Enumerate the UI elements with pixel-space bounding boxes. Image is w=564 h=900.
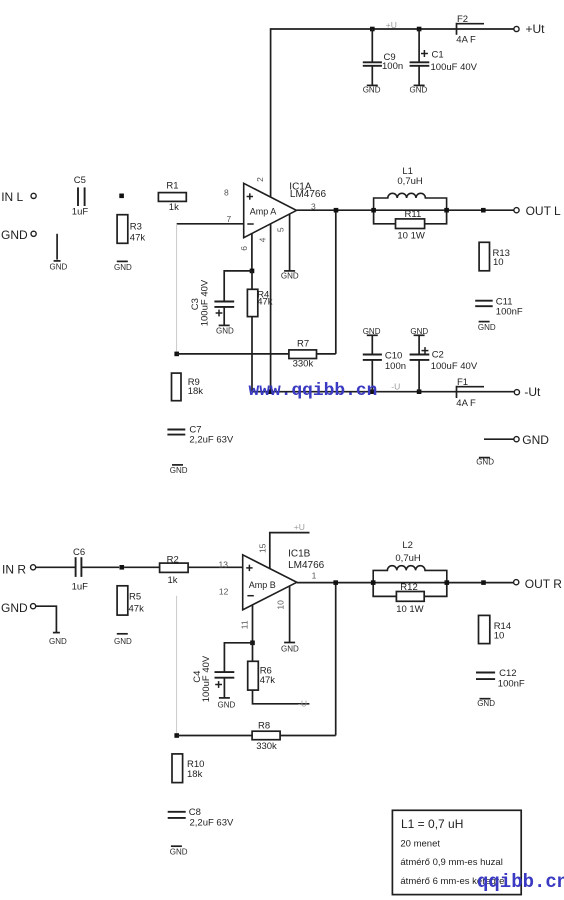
ground under C4 xyxy=(218,698,236,709)
resistor R12 xyxy=(373,582,447,615)
wire mute to C3 xyxy=(224,271,252,302)
junction mute A xyxy=(250,269,255,274)
ground under C7 xyxy=(170,465,188,475)
wire pin 15 xyxy=(270,533,310,569)
svg-text:4A F: 4A F xyxy=(456,398,476,409)
junction rail C2 xyxy=(417,389,422,394)
wire inverting net faint B xyxy=(176,596,178,736)
svg-text:20 menet: 20 menet xyxy=(400,839,440,850)
net -U label B xyxy=(298,699,307,709)
wire IN R to C6 xyxy=(36,566,76,568)
svg-text:R7: R7 xyxy=(297,338,309,349)
svg-text:OUT L: OUT L xyxy=(526,204,561,218)
junction L1 left xyxy=(371,208,376,213)
terminal GND input B xyxy=(1,601,36,615)
junction mute B xyxy=(250,641,255,646)
svg-text:47k: 47k xyxy=(260,675,276,686)
ground under C9 xyxy=(363,85,381,94)
svg-text:LM4766: LM4766 xyxy=(290,189,327,200)
net -U label xyxy=(391,381,400,391)
ground under R5 xyxy=(114,634,132,646)
svg-text:GND: GND xyxy=(410,86,428,95)
resistor R8 xyxy=(252,721,280,753)
svg-text:12: 12 xyxy=(219,587,229,597)
svg-text:4A F: 4A F xyxy=(456,34,476,45)
resistor R3 xyxy=(117,215,145,244)
svg-text:18k: 18k xyxy=(187,769,203,780)
resistor R4 xyxy=(247,271,272,392)
svg-text:OUT R: OUT R xyxy=(525,577,562,591)
ground under C12 xyxy=(477,699,495,708)
svg-text:1k: 1k xyxy=(168,575,178,586)
op-amp IC1B xyxy=(219,543,325,629)
capacitor C1 xyxy=(410,29,478,85)
wire pin 7 xyxy=(177,223,244,225)
inductor L2 xyxy=(373,540,447,583)
svg-text:1: 1 xyxy=(312,570,317,580)
wire GND output terminal xyxy=(484,438,514,440)
svg-text:-U: -U xyxy=(391,381,400,391)
svg-text:GND: GND xyxy=(1,228,28,242)
svg-text:Amp A: Amp A xyxy=(250,206,277,216)
junction feedback B xyxy=(174,733,179,738)
capacitor C4 xyxy=(192,655,234,702)
svg-text:LM4766: LM4766 xyxy=(288,560,325,571)
resistor R6 xyxy=(248,643,310,704)
wire -U rail xyxy=(252,391,514,393)
svg-text:www.qqibb.cn: www.qqibb.cn xyxy=(249,381,378,401)
wire R2 to pin 13 xyxy=(188,566,243,568)
ground symbol near terminal xyxy=(476,458,494,467)
svg-text:11: 11 xyxy=(239,620,249,629)
svg-text:R2: R2 xyxy=(167,554,179,565)
svg-text:4: 4 xyxy=(257,237,267,242)
svg-text:Amp B: Amp B xyxy=(249,580,276,590)
svg-text:GND: GND xyxy=(478,323,496,332)
junction output/feedback A xyxy=(334,208,339,213)
svg-text:GND: GND xyxy=(114,263,132,272)
svg-text:18k: 18k xyxy=(188,386,204,397)
svg-text:C10: C10 xyxy=(385,350,402,361)
resistor R11 xyxy=(374,209,447,241)
svg-text:C12: C12 xyxy=(499,668,516,679)
svg-text:100n: 100n xyxy=(382,61,403,72)
svg-text:GND: GND xyxy=(363,86,381,95)
svg-text:GND: GND xyxy=(281,645,299,654)
svg-text:L1 = 0,7 uH: L1 = 0,7 uH xyxy=(401,817,463,831)
svg-text:R3: R3 xyxy=(130,221,142,232)
capacitor C3 xyxy=(190,279,234,326)
wire GND input A xyxy=(56,234,58,260)
resistor R14 xyxy=(479,615,512,643)
svg-text:1uF: 1uF xyxy=(72,206,89,217)
fuse F2 xyxy=(456,14,484,46)
wire output A xyxy=(297,209,514,211)
wire C6 to node xyxy=(81,566,119,568)
resistor R10 xyxy=(172,754,204,783)
note box xyxy=(392,810,521,894)
svg-text:47k: 47k xyxy=(257,297,273,308)
junction node +U/C1 xyxy=(417,27,422,32)
junction L1 right xyxy=(444,208,449,213)
junction rail C10 xyxy=(370,389,375,394)
ground under C3 xyxy=(216,325,234,335)
capacitor C8 xyxy=(168,807,234,829)
svg-text:R1: R1 xyxy=(166,181,178,192)
wire feedback row B xyxy=(177,583,336,736)
svg-text:GND: GND xyxy=(170,848,188,857)
capacitor C5 xyxy=(72,175,89,217)
svg-text:qqibb.cn: qqibb.cn xyxy=(477,871,564,893)
svg-text:GND: GND xyxy=(522,433,549,447)
wire pin 11 xyxy=(252,605,254,643)
inductor L1 xyxy=(374,166,447,210)
ground input A xyxy=(50,261,68,272)
svg-text:2,2uF 63V: 2,2uF 63V xyxy=(190,818,234,829)
wire inverting net faint xyxy=(176,224,178,354)
capacitor C12 xyxy=(476,668,525,689)
capacitor C9 xyxy=(363,29,403,85)
svg-text:C1: C1 xyxy=(432,50,444,61)
wire node to R2 xyxy=(124,566,160,568)
wire pin 5 xyxy=(289,214,291,271)
svg-text:47k: 47k xyxy=(129,603,145,614)
svg-text:2,2uF 63V: 2,2uF 63V xyxy=(189,435,233,446)
resistor R1 xyxy=(158,181,186,214)
svg-text:GND: GND xyxy=(477,699,495,708)
junction L2 left xyxy=(371,580,376,585)
wire output B xyxy=(297,582,514,584)
capacitor C10 xyxy=(363,327,406,392)
terminal +Ut xyxy=(514,22,545,36)
terminal IN R xyxy=(2,562,36,576)
resistor R7 xyxy=(289,338,317,369)
capacitor C11 xyxy=(475,297,523,318)
svg-text:100nF: 100nF xyxy=(496,307,523,318)
svg-text:C5: C5 xyxy=(74,175,86,186)
svg-text:L2: L2 xyxy=(402,540,413,551)
svg-text:C6: C6 xyxy=(73,547,85,558)
svg-text:F1: F1 xyxy=(457,377,468,388)
node dot input B xyxy=(120,565,125,570)
watermark center xyxy=(249,381,378,401)
ground pin 5 xyxy=(281,271,299,281)
svg-text:F2: F2 xyxy=(457,14,468,25)
svg-text:330k: 330k xyxy=(256,741,277,752)
svg-text:GND: GND xyxy=(114,637,132,646)
ground under C1 xyxy=(410,85,428,94)
wire mute to C4 xyxy=(224,643,252,672)
capacitor C2 xyxy=(410,327,478,392)
svg-text:GND: GND xyxy=(476,458,494,467)
terminal OUT L xyxy=(514,204,561,218)
svg-text:GND: GND xyxy=(281,271,299,280)
terminal GND input A xyxy=(1,228,36,242)
wire pin 4 xyxy=(270,224,272,392)
svg-text:GND: GND xyxy=(49,637,67,646)
ground under C11 xyxy=(478,322,496,333)
svg-text:100uF 40V: 100uF 40V xyxy=(201,655,212,702)
svg-text:IC1B: IC1B xyxy=(288,548,311,559)
svg-text:2: 2 xyxy=(255,177,265,182)
svg-text:GND: GND xyxy=(50,262,68,271)
junction rail pin4 xyxy=(268,389,273,394)
svg-text:330k: 330k xyxy=(293,359,314,370)
svg-text:100nF: 100nF xyxy=(498,679,525,690)
ground under C8 xyxy=(170,846,188,856)
terminal -Ut xyxy=(514,385,541,399)
svg-text:8: 8 xyxy=(224,188,229,198)
svg-text:100n: 100n xyxy=(385,361,406,372)
ground pin 10 xyxy=(281,643,299,654)
svg-text:6: 6 xyxy=(239,246,249,251)
capacitor C6 xyxy=(72,547,89,593)
resistor R13 xyxy=(479,242,510,270)
svg-text:5: 5 xyxy=(276,227,286,232)
wire GND input B xyxy=(36,606,57,632)
svg-text:100uF 40V: 100uF 40V xyxy=(431,62,478,73)
svg-text:0,7uH: 0,7uH xyxy=(397,176,422,187)
resistor R2 xyxy=(160,554,189,586)
svg-text:-U: -U xyxy=(298,699,307,709)
junction node +U/C9 xyxy=(370,27,375,32)
terminal IN L xyxy=(1,190,36,204)
svg-text:1k: 1k xyxy=(169,202,179,213)
junction feedback A xyxy=(174,352,179,357)
svg-text:100uF 40V: 100uF 40V xyxy=(200,279,211,326)
svg-text:15: 15 xyxy=(257,543,267,553)
svg-text:+U: +U xyxy=(386,20,397,30)
svg-text:0,7uH: 0,7uH xyxy=(395,553,420,564)
svg-text:C2: C2 xyxy=(432,349,444,360)
svg-text:+U: +U xyxy=(294,522,305,532)
op-amp IC1A xyxy=(224,177,326,251)
node dot input A xyxy=(119,194,124,199)
junction L2 right xyxy=(445,580,450,585)
svg-text:GND: GND xyxy=(170,466,188,475)
svg-text:+Ut: +Ut xyxy=(526,22,546,36)
svg-text:IN R: IN R xyxy=(2,562,26,576)
ground under R3 xyxy=(114,261,132,272)
junction out L xyxy=(481,208,486,213)
svg-text:7: 7 xyxy=(227,214,232,224)
wire pin 6 xyxy=(251,233,253,271)
svg-text:GND: GND xyxy=(1,601,28,615)
svg-text:100uF 40V: 100uF 40V xyxy=(431,361,478,372)
svg-text:10: 10 xyxy=(276,600,286,610)
fuse F1 xyxy=(456,377,484,409)
net +U label B xyxy=(294,522,305,532)
svg-text:10: 10 xyxy=(494,631,505,642)
watermark bottom right xyxy=(477,871,564,893)
svg-text:R8: R8 xyxy=(258,721,270,732)
terminal GND output xyxy=(514,433,549,447)
svg-text:R11: R11 xyxy=(405,209,422,220)
svg-text:R12: R12 xyxy=(400,582,417,593)
svg-text:-Ut: -Ut xyxy=(524,385,541,399)
svg-text:R5: R5 xyxy=(129,592,141,603)
svg-text:átmérő 0,9 mm-es huzal: átmérő 0,9 mm-es huzal xyxy=(400,857,502,868)
wire pin 10 xyxy=(289,586,291,642)
svg-text:10 1W: 10 1W xyxy=(396,604,423,615)
svg-text:1uF: 1uF xyxy=(72,581,89,592)
svg-text:GND: GND xyxy=(218,700,236,709)
wire +U rail xyxy=(271,29,514,197)
svg-text:IN L: IN L xyxy=(1,190,23,204)
ground input B xyxy=(49,633,67,646)
resistor R5 xyxy=(117,586,144,615)
svg-text:10 1W: 10 1W xyxy=(397,230,424,241)
junction out R xyxy=(481,580,486,585)
svg-text:13: 13 xyxy=(219,559,229,569)
junction output/feedback B xyxy=(333,580,338,585)
svg-text:GND: GND xyxy=(216,327,234,336)
svg-text:C8: C8 xyxy=(189,807,201,818)
svg-text:10: 10 xyxy=(493,257,504,268)
net +U label xyxy=(386,20,397,30)
svg-text:47k: 47k xyxy=(130,232,146,243)
resistor R9 xyxy=(172,373,204,401)
capacitor C7 xyxy=(167,424,233,445)
wire feedback row A xyxy=(177,210,336,354)
terminal OUT R xyxy=(514,577,563,591)
